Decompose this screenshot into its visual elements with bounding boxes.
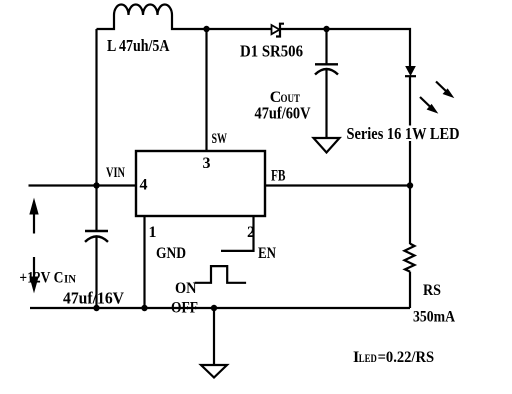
svg-text:SW: SW (212, 131, 228, 147)
capacitor CIN 47uf/16V (polarized) (85, 231, 108, 242)
svg-text:RS: RS (423, 282, 441, 299)
junction CIN/VIN node (93, 182, 99, 188)
svg-text:47uf/60V: 47uf/60V (255, 104, 312, 123)
svg-text:GND: GND (156, 245, 186, 262)
svg-text:EN: EN (258, 245, 276, 262)
junction COUT node (323, 26, 329, 32)
svg-text:IN: IN (64, 272, 76, 286)
svg-text:VIN: VIN (106, 165, 125, 181)
wire COUT node to LED branch corner and down (327, 29, 411, 67)
wire diode cathode to COUT node (280, 28, 327, 30)
junction SW node (203, 26, 209, 32)
voltage arrow up (+12V positive) (30, 200, 38, 234)
svg-text:L 47uh/5A: L 47uh/5A (107, 36, 170, 55)
svg-text:LED: LED (359, 351, 377, 365)
resistor RS (405, 244, 415, 272)
svg-text:3: 3 (203, 155, 211, 172)
svg-text:4: 4 (140, 177, 148, 194)
pulse waveform ON/OFF (195, 266, 246, 283)
svg-text:1: 1 (149, 224, 157, 241)
svg-text:47uf/16V: 47uf/16V (63, 289, 125, 308)
svg-text:=0.22/RS: =0.22/RS (378, 349, 435, 366)
svg-text:350mA: 350mA (413, 309, 455, 326)
wire COUT top lead (325, 29, 327, 64)
ground (bottom) (201, 365, 227, 378)
wire top-left vertical (inductor left lead down to VIN rail) (95, 29, 97, 186)
wire COUT bottom lead to ground (325, 69, 327, 138)
svg-text:ON: ON (175, 280, 197, 297)
wire VIN rail (29, 184, 137, 186)
inductor L1 L 47uh/5A (97, 5, 207, 30)
junction ground node (211, 305, 217, 311)
voltage arrow down (+12V negative) (30, 257, 38, 292)
regulator IC U1 body (136, 151, 265, 216)
svg-text:+12V C: +12V C (19, 270, 63, 287)
wire SW pin vertical (205, 29, 207, 151)
LED light emission arrows (420, 82, 452, 112)
wire FB node down to resistor (409, 186, 411, 245)
wire CIN bottom lead (95, 237, 97, 309)
junction FB node (407, 182, 413, 188)
wire LED cathode down to FB node (409, 76, 411, 186)
junction CIN bottom node (93, 305, 99, 311)
svg-text:Series 16 1W LED: Series 16 1W LED (347, 124, 460, 143)
wire SW node to diode anode (207, 28, 272, 30)
wire EN pin dogleg (221, 216, 254, 251)
wire bottom rail (30, 307, 410, 309)
svg-text:D1 SR506: D1 SR506 (240, 42, 303, 61)
wire GND pin 1 vertical (143, 216, 145, 308)
wire resistor to bottom rail (409, 272, 411, 308)
wire ground stub (213, 308, 215, 365)
diode D1 SR506 (Schottky) (272, 24, 285, 37)
ground (below COUT) (314, 138, 340, 153)
wire FB rail (265, 184, 410, 186)
junction pin1 bottom node (141, 305, 147, 311)
svg-text:FB: FB (271, 168, 286, 185)
capacitor COUT 47uf/60V (polarized) (315, 64, 338, 74)
value label Series 16 1W LED (white backing over wire) (344, 124, 463, 143)
wire CIN top lead (95, 186, 97, 231)
LED (series string) symbol (405, 67, 416, 77)
